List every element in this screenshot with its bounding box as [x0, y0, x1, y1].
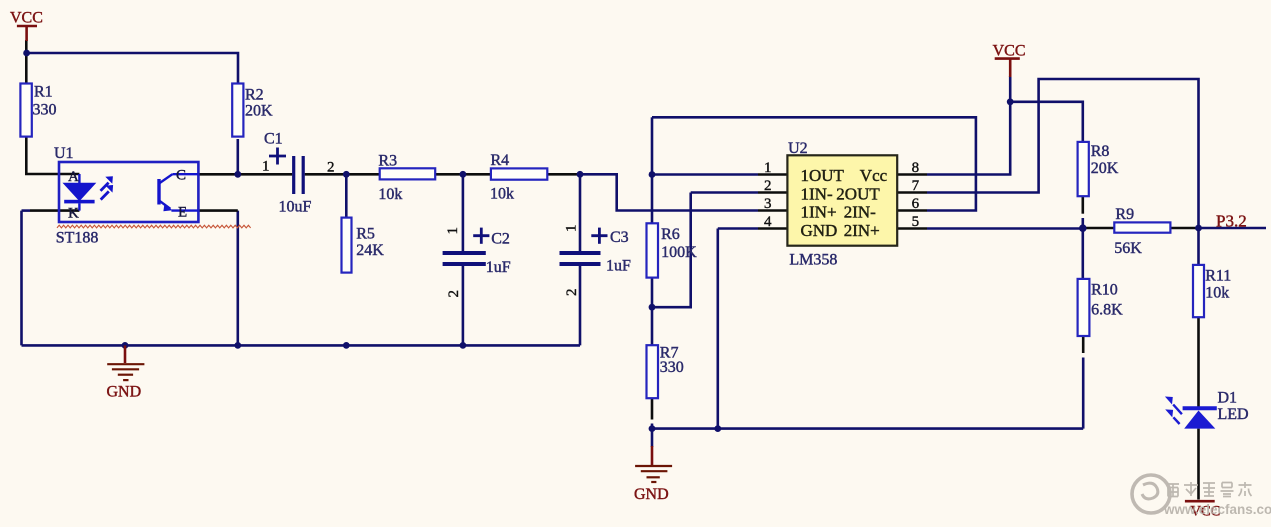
svg-text:1: 1 [764, 160, 772, 176]
svg-text:R10: R10 [1091, 282, 1118, 299]
svg-text:R3: R3 [378, 152, 397, 169]
svg-text:6.8K: 6.8K [1091, 302, 1123, 319]
svg-text:20K: 20K [1091, 160, 1119, 177]
svg-text:2: 2 [327, 160, 335, 176]
svg-text:2IN-: 2IN- [844, 203, 876, 222]
svg-text:3: 3 [764, 196, 772, 212]
svg-text:1: 1 [262, 159, 270, 175]
svg-text:R2: R2 [245, 87, 264, 104]
svg-text:U2: U2 [788, 140, 808, 157]
svg-text:www.elecfans.com: www.elecfans.com [1163, 502, 1271, 517]
svg-text:2IN+: 2IN+ [844, 221, 880, 240]
svg-text:R9: R9 [1115, 206, 1134, 223]
svg-text:24K: 24K [356, 242, 384, 259]
svg-text:1IN+: 1IN+ [801, 203, 837, 222]
svg-text:56K: 56K [1114, 240, 1142, 257]
svg-text:1uF: 1uF [486, 259, 511, 276]
svg-text:R6: R6 [661, 226, 680, 243]
svg-text:5: 5 [912, 214, 920, 230]
svg-text:R8: R8 [1091, 143, 1110, 160]
svg-text:C: C [176, 168, 186, 184]
svg-text:VCC: VCC [993, 43, 1026, 60]
svg-text:20K: 20K [245, 103, 273, 120]
svg-text:10k: 10k [378, 186, 402, 203]
svg-text:10uF: 10uF [279, 199, 312, 216]
svg-text:1IN-: 1IN- [801, 184, 833, 203]
svg-text:C2: C2 [491, 230, 510, 247]
svg-text:R4: R4 [491, 152, 510, 169]
svg-text:Vcc: Vcc [860, 166, 888, 185]
svg-text:A: A [68, 169, 79, 185]
svg-text:P3.2: P3.2 [1216, 212, 1247, 231]
svg-text:330: 330 [660, 359, 684, 376]
svg-text:R11: R11 [1205, 268, 1231, 285]
svg-text:C3: C3 [610, 229, 629, 246]
svg-text:K: K [68, 206, 79, 222]
svg-text:ST188: ST188 [56, 230, 99, 247]
svg-text:330: 330 [33, 102, 57, 119]
svg-text:D1: D1 [1218, 390, 1238, 407]
svg-text:6: 6 [912, 196, 920, 212]
svg-text:4: 4 [764, 214, 772, 230]
svg-text:VCC: VCC [10, 10, 43, 27]
svg-text:10k: 10k [1205, 285, 1229, 302]
svg-text:2: 2 [764, 178, 772, 194]
svg-text:LED: LED [1218, 406, 1249, 423]
svg-text:E: E [178, 205, 187, 221]
svg-text:GND: GND [107, 384, 142, 401]
svg-text:GND: GND [801, 221, 838, 240]
svg-text:1: 1 [445, 227, 461, 235]
svg-text:2: 2 [564, 289, 580, 297]
svg-text:GND: GND [634, 486, 669, 503]
svg-text:100K: 100K [661, 244, 697, 261]
svg-text:R5: R5 [356, 226, 375, 243]
svg-text:U1: U1 [54, 145, 74, 162]
svg-text:C1: C1 [264, 131, 283, 148]
svg-text:1uF: 1uF [606, 258, 631, 275]
svg-text:2: 2 [446, 290, 462, 298]
svg-text:R1: R1 [34, 84, 53, 101]
svg-text:10k: 10k [490, 186, 514, 203]
svg-text:LM358: LM358 [789, 252, 837, 269]
svg-text:1OUT: 1OUT [801, 166, 845, 185]
svg-text:1: 1 [564, 225, 580, 233]
svg-text:2OUT: 2OUT [836, 184, 880, 203]
svg-text:8: 8 [912, 160, 920, 176]
svg-text:7: 7 [912, 178, 920, 194]
